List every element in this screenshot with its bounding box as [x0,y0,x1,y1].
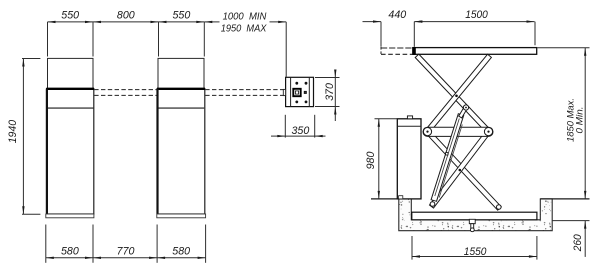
dimension 550 top-left [48,21,205,23]
post left column top section [48,58,94,88]
motor box lid line [397,125,421,127]
dimension 1500 [414,21,534,23]
ground line left [371,198,399,200]
upper scissor pivot dot [455,95,458,98]
dashed connection lines between posts [94,89,157,91]
svg-text:800: 800 [117,10,135,22]
svg-text:1550: 1550 [464,246,487,258]
svg-text:580: 580 [61,245,79,257]
dimension 1850 Max 0 Min [538,47,590,49]
control box connector square [293,89,300,96]
lower scissor pivot dot [459,169,462,172]
motor box knob [407,116,412,119]
post left base plate [46,214,94,218]
cylinder top pivot [463,105,468,110]
dimension 1550 [411,236,413,260]
svg-text:980: 980 [365,152,377,170]
hydraulic cylinder rod [459,107,467,118]
post left thick left edge [46,89,48,214]
base rail [412,212,537,220]
dimension 580 bottom-left [46,257,206,259]
scissor lower leg D [430,130,491,208]
svg-text:580: 580 [172,245,190,257]
post right thick band [157,88,205,90]
svg-text:1950 MAX: 1950 MAX [221,24,268,35]
svg-text:1940: 1940 [7,120,19,143]
dimension 770 bottom [93,257,101,259]
svg-text:370: 370 [324,83,336,101]
hydraulic cylinder inner line left [435,119,460,197]
dimension 1000 MIN 1950 MAX [204,21,219,23]
dimension 550 top-right [159,21,167,23]
svg-text:260: 260 [572,234,584,252]
dimension 440 [363,21,382,23]
anchor under rail [469,219,475,223]
dashed connection lines post to control box [205,89,283,91]
pit concrete section (walls + floor slab) [399,199,552,231]
scissor link bone [423,127,493,136]
scissor lower leg C [426,130,502,210]
control box mounting holes [295,82,298,85]
leg D bottom circle [430,202,435,207]
platform [413,48,537,55]
dimension 260 [552,220,589,222]
post left band lower line [47,107,93,109]
svg-text:350: 350 [292,125,310,137]
svg-text:1500: 1500 [465,9,488,21]
platform left end cap [413,47,416,54]
dimension 980 [375,118,398,120]
motor box [397,119,421,199]
link pivot circle right [484,128,492,136]
link pivot circle left [423,128,431,136]
ground line right [540,198,589,200]
extension lines top lift [380,22,382,47]
hydraulic cylinder body [431,114,464,202]
platform hidden extension dashed [381,47,412,49]
svg-text:0 Min.: 0 Min. [575,107,586,134]
dimension 370 control box [315,77,340,79]
post right column top section [158,58,204,88]
cylinder small square [446,153,448,155]
post left column body [47,89,94,214]
motor box foot notch [399,196,403,199]
post right band lower line [158,107,204,109]
hydraulic cylinder inner line right [439,125,462,198]
svg-text:770: 770 [117,245,135,257]
post right base plate [157,214,206,218]
extension lines top posts [47,22,49,57]
extension lines bottom posts [45,225,47,263]
dimension 1940 left [22,58,40,60]
post right column body [157,89,205,214]
control box small square dot [304,91,306,93]
control box right flange line [308,77,310,106]
leg C bottom circle [497,205,502,210]
dimension 580 bottom-right [157,257,165,259]
dimension 350 control box [284,115,286,138]
svg-text:550: 550 [61,10,79,22]
svg-text:550: 550 [173,10,191,22]
control box body [286,77,314,106]
dimension 800 top [93,21,101,23]
post right thick left edge [156,89,158,214]
svg-text:440: 440 [388,9,406,21]
control box left cable gland [283,89,285,95]
svg-text:1000 MIN: 1000 MIN [223,11,267,22]
control box left flange line [290,77,292,106]
post left thick band [46,88,94,90]
scissor upper leg A [415,54,490,133]
scissor upper leg B [426,54,492,133]
